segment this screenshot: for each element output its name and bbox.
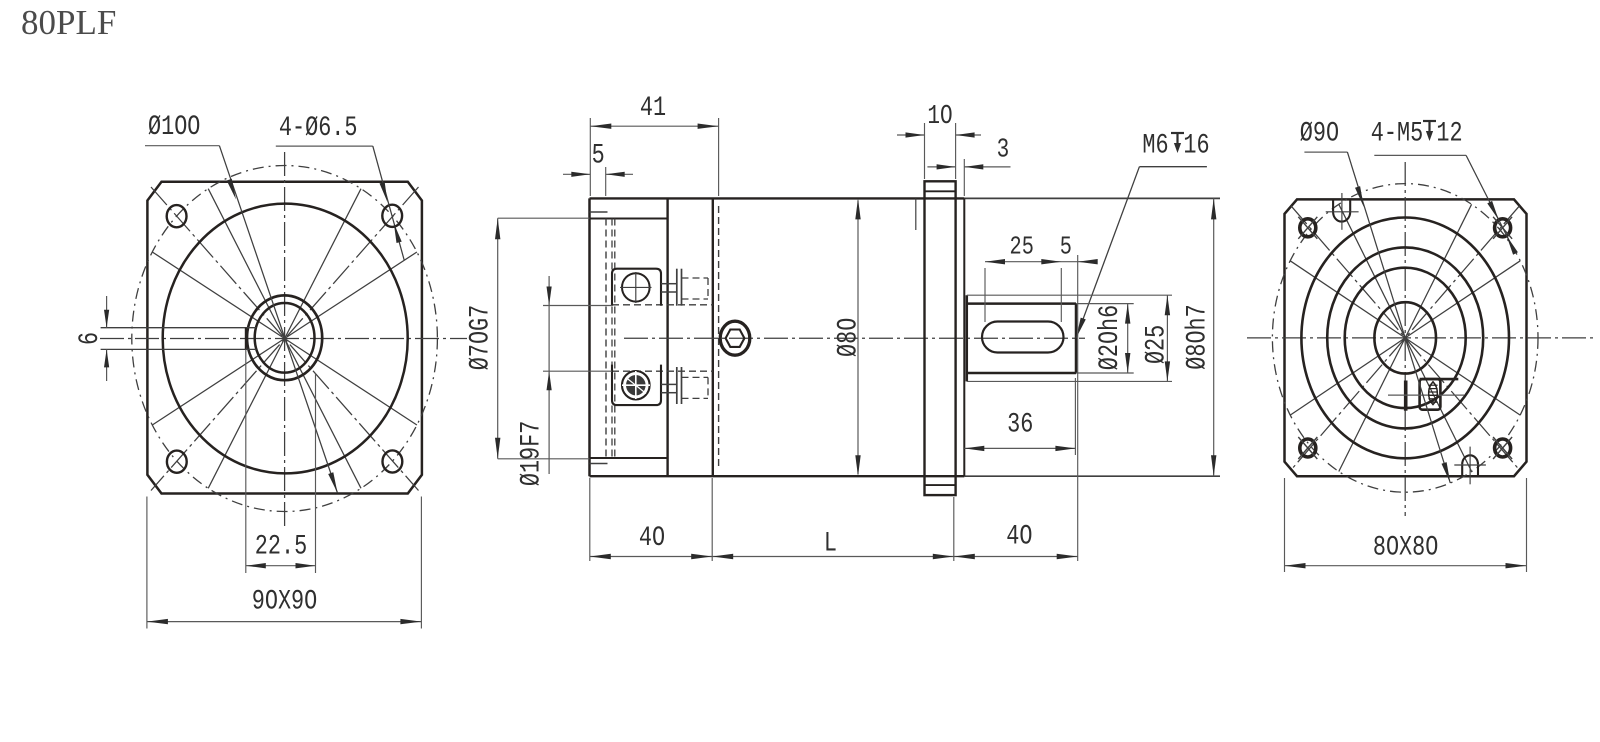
svg-text:Ø7OG7: Ø7OG7	[464, 305, 496, 370]
svg-text:9OX9O: 9OX9O	[252, 585, 317, 617]
svg-text:41: 41	[640, 91, 666, 123]
svg-text:Ø8O: Ø8O	[832, 318, 864, 357]
svg-text:25: 25	[1010, 233, 1034, 262]
svg-text:6: 6	[74, 332, 106, 345]
svg-text:4O: 4O	[1006, 520, 1032, 552]
svg-text:Ø1OO: Ø1OO	[148, 111, 200, 143]
svg-text:8OX8O: 8OX8O	[1373, 531, 1438, 563]
svg-text:Ø2Oh6: Ø2Oh6	[1094, 305, 1126, 370]
svg-text:3: 3	[997, 135, 1010, 165]
svg-text:L: L	[824, 527, 837, 559]
svg-text:5: 5	[592, 139, 605, 171]
svg-text:M6: M6	[1142, 129, 1168, 161]
svg-text:5: 5	[1060, 232, 1072, 261]
svg-text:Ø8Oh7: Ø8Oh7	[1181, 304, 1213, 369]
svg-text:12: 12	[1436, 117, 1462, 149]
svg-text:4-M5: 4-M5	[1371, 117, 1423, 149]
svg-text:4O: 4O	[639, 522, 665, 554]
svg-text:Ø19F7: Ø19F7	[515, 421, 547, 486]
svg-text:Ø25: Ø25	[1140, 325, 1172, 364]
svg-text:22.5: 22.5	[255, 530, 307, 562]
svg-text:4-Ø6.5: 4-Ø6.5	[279, 112, 358, 144]
svg-text:Ø9O: Ø9O	[1300, 117, 1339, 149]
svg-text:1O: 1O	[927, 102, 952, 132]
svg-text:36: 36	[1007, 408, 1033, 440]
svg-text:16: 16	[1183, 129, 1209, 161]
